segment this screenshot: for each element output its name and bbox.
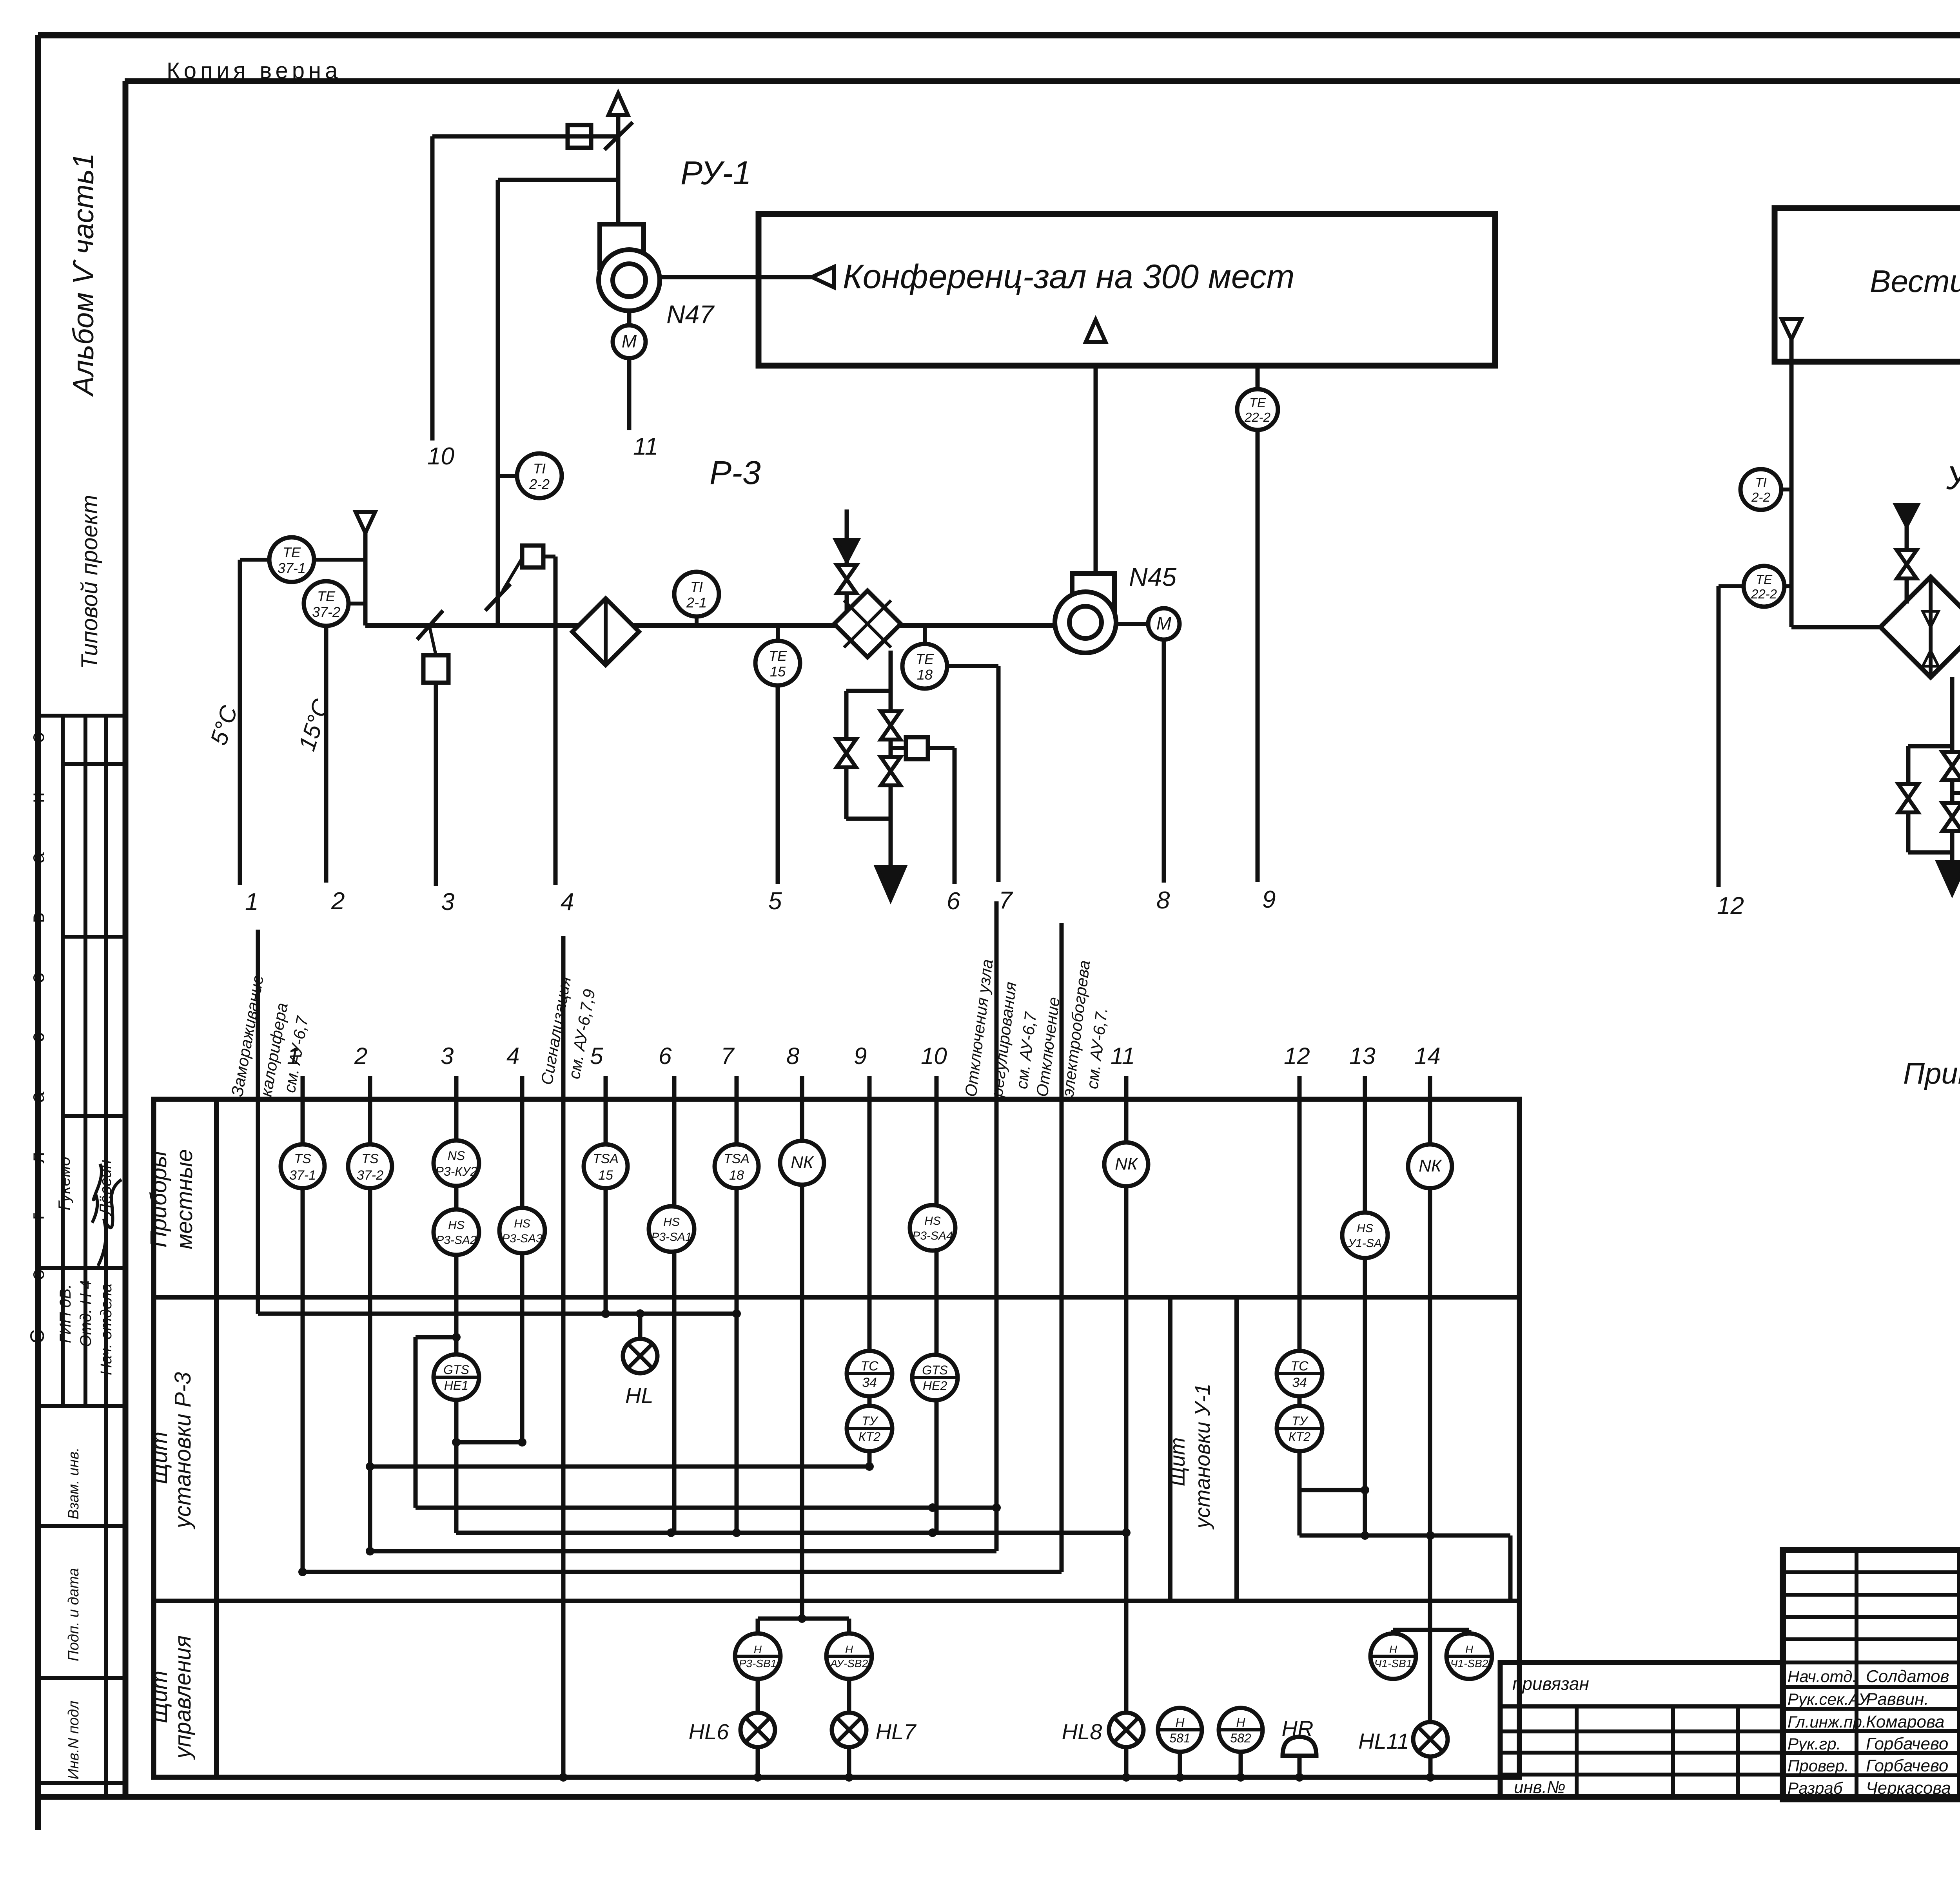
duct U-1 xyxy=(1791,625,1880,629)
svg-text:2-2: 2-2 xyxy=(529,476,550,492)
svg-text:НL8: НL8 xyxy=(1062,1719,1102,1744)
svg-text:ТЕ: ТЕ xyxy=(1756,572,1773,587)
wire 12 xyxy=(1719,584,1744,588)
svg-text:11: 11 xyxy=(633,433,658,460)
wire xyxy=(627,311,632,325)
wire 9 xyxy=(1256,430,1260,882)
svg-text:Гукемо: Гукемо xyxy=(55,1157,73,1211)
svg-text:НL6: НL6 xyxy=(689,1719,730,1744)
wire duct riser to P-3 xyxy=(496,180,500,625)
svg-text:Вестибюль: Вестибюль xyxy=(1870,264,1960,299)
matrix column 12 xyxy=(1298,1076,1302,1535)
svg-text:5: 5 xyxy=(768,888,782,915)
wire bracket H buttons U-1 xyxy=(1393,1628,1469,1632)
annotation: Отключение электрообогрева см.АУ-6,7 xyxy=(1060,923,1064,1572)
svg-text:10: 10 xyxy=(427,443,454,470)
svg-text:Разраб: Разраб xyxy=(1788,1779,1843,1797)
svg-text:НS: НS xyxy=(663,1216,680,1229)
svg-text:ТS: ТS xyxy=(361,1151,379,1166)
lamp HL drop xyxy=(638,1314,642,1339)
svg-text:С о г л а с о в а н о: С о г л а с о в а н о xyxy=(26,710,48,1344)
wire 1 xyxy=(238,560,242,885)
svg-text:Нач.отд.: Нач.отд. xyxy=(1788,1667,1857,1686)
svg-text:Черкасова: Черкасова xyxy=(1866,1778,1951,1798)
instrument NS P3-KY2 xyxy=(434,1140,479,1186)
svg-text:18: 18 xyxy=(729,1168,744,1183)
svg-text:N47: N47 xyxy=(666,300,715,329)
sheet outer border top xyxy=(38,32,1960,38)
svg-text:10: 10 xyxy=(921,1043,947,1069)
supply arrow into hall xyxy=(1086,320,1105,342)
inner frame left xyxy=(123,81,129,1797)
button H Ч1-SB1 xyxy=(1370,1633,1416,1679)
svg-text:2-1: 2-1 xyxy=(686,595,707,611)
svg-text:NК: NК xyxy=(1419,1157,1442,1176)
wire col3-col4 tie xyxy=(456,1440,522,1445)
fan N45 scroll xyxy=(1072,573,1114,623)
svg-text:КТ2: КТ2 xyxy=(1289,1430,1310,1444)
svg-text:установки Р-3: установки Р-3 xyxy=(170,1372,196,1530)
svg-text:582: 582 xyxy=(1230,1731,1251,1745)
instrument HS P3-SA2 xyxy=(434,1209,479,1255)
fan N45 impeller xyxy=(1055,592,1116,653)
damper slash on riser + actuator xyxy=(485,584,510,611)
svg-text:НS: НS xyxy=(514,1217,530,1230)
lamp HL8 xyxy=(1109,1713,1143,1747)
wire xyxy=(1178,1752,1182,1777)
inner frame top xyxy=(125,78,1960,84)
svg-text:Подп. и дата: Подп. и дата xyxy=(65,1568,82,1661)
matrix column 11 xyxy=(1124,1076,1129,1713)
svg-text:Щит: Щит xyxy=(147,1671,172,1723)
matrix column 14 xyxy=(1428,1076,1432,1722)
annotation: Сигнализация см.АУ-6,7,9 xyxy=(561,936,566,1777)
svg-text:ТЕ: ТЕ xyxy=(283,544,301,560)
svg-text:Горбачево: Горбачево xyxy=(1866,1756,1948,1775)
svg-text:2: 2 xyxy=(331,888,345,915)
svg-text:Щит: Щит xyxy=(1166,1438,1189,1486)
wire bypass xyxy=(1906,746,1911,852)
fan N47 impeller xyxy=(599,250,660,311)
relay GTS HE2 xyxy=(912,1355,958,1400)
heat supply arrow U-1 xyxy=(1896,505,1918,526)
svg-text:Н: Н xyxy=(1389,1643,1397,1655)
svg-text:НЕ2: НЕ2 xyxy=(923,1379,947,1393)
wire 7 xyxy=(947,664,998,668)
svg-text:Щит: Щит xyxy=(147,1432,172,1484)
title block main box xyxy=(1783,1550,1960,1799)
svg-text:Н: Н xyxy=(1175,1715,1185,1729)
svg-text:Ч1-SВ1: Ч1-SВ1 xyxy=(1374,1657,1412,1670)
svg-text:М: М xyxy=(1156,613,1172,633)
svg-text:ТІ: ТІ xyxy=(533,460,546,477)
svg-text:ТS: ТS xyxy=(294,1151,311,1166)
svg-text:Инв.N подл: Инв.N подл xyxy=(65,1701,82,1780)
svg-text:5: 5 xyxy=(590,1043,603,1069)
matrix column 9 xyxy=(867,1076,872,1467)
svg-text:Рук.сек.АУ: Рук.сек.АУ xyxy=(1788,1690,1871,1708)
wire bus P-3 panel top xyxy=(258,1312,737,1316)
button H P3-SB1 xyxy=(735,1633,780,1679)
wire link xyxy=(430,627,436,655)
RU-1 damper actuator box xyxy=(568,125,591,148)
title block extension box xyxy=(1500,1662,1783,1797)
wire xyxy=(1784,584,1791,588)
matrix row divider: instruments/panel P-3 xyxy=(154,1295,1519,1300)
wire xyxy=(348,602,365,605)
svg-text:Типовой проект: Типовой проект xyxy=(77,495,102,669)
svg-text:ТSА: ТSА xyxy=(593,1151,619,1166)
instrument HS U1-SA xyxy=(1342,1213,1388,1258)
svg-text:NК: NК xyxy=(1115,1155,1138,1174)
svg-text:НS: НS xyxy=(924,1215,941,1227)
svg-text:НL7: НL7 xyxy=(876,1719,917,1744)
matrix row divider: panel/control board xyxy=(154,1599,1519,1603)
instrument TSA 15 xyxy=(584,1144,628,1188)
svg-text:GТS: GТS xyxy=(443,1363,469,1377)
matrix column 13 xyxy=(1363,1076,1367,1535)
svg-text:6: 6 xyxy=(947,888,960,915)
svg-text:Приборы: Приборы xyxy=(146,1151,171,1247)
drain arrow xyxy=(877,867,905,899)
svg-text:N45: N45 xyxy=(1129,562,1176,591)
svg-text:ТSА: ТSА xyxy=(724,1151,750,1166)
wire xyxy=(314,558,365,562)
button H AY-SB2 xyxy=(826,1633,872,1679)
matrix column 1 xyxy=(301,1076,305,1572)
lamp HL6 xyxy=(740,1713,775,1747)
button H 581 xyxy=(1158,1708,1202,1752)
matrix column 5 xyxy=(604,1076,608,1314)
matrix column 2 xyxy=(368,1076,372,1551)
svg-text:Горбачево: Горбачево xyxy=(1866,1734,1948,1753)
svg-text:Р3-SА2: Р3-SА2 xyxy=(436,1234,477,1247)
svg-text:ТЕ: ТЕ xyxy=(317,588,336,604)
bell HR xyxy=(1283,1737,1316,1756)
svg-text:Провер.: Провер. xyxy=(1788,1757,1849,1775)
svg-text:установки У-1: установки У-1 xyxy=(1191,1383,1214,1530)
controller TC 34 xyxy=(847,1351,892,1396)
wire xyxy=(695,616,699,625)
heater (air heater) xyxy=(834,591,901,657)
annotation: Отключения узла регулирования см.АУ-6,7 xyxy=(995,901,999,1551)
svg-text:Конференц-зал на 300 мест: Конференц-зал на 300 мест xyxy=(843,258,1294,295)
svg-text:Альбом Ѵ часть1: Альбом Ѵ часть1 xyxy=(67,153,100,397)
svg-text:2-2: 2-2 xyxy=(1751,490,1770,504)
lamp HL xyxy=(623,1339,657,1373)
wire bus to col11 xyxy=(456,1531,1126,1535)
svg-text:4: 4 xyxy=(561,888,574,915)
svg-text:ТУ: ТУ xyxy=(1292,1414,1309,1428)
svg-text:Ч1-SВ2: Ч1-SВ2 xyxy=(1450,1657,1488,1670)
instrument TSA 18 xyxy=(715,1144,759,1188)
svg-text:Примечания см. лист АУ-7.: Примечания см. лист АУ-7. xyxy=(1903,1057,1960,1090)
wire fan N47 suction xyxy=(660,275,812,279)
left stamp table xyxy=(38,714,125,718)
svg-text:Отд. Н 4: Отд. Н 4 xyxy=(77,1280,94,1347)
instrument TI 2-2 (U-1 intake) xyxy=(1740,469,1781,510)
vestibule intake funnel xyxy=(1782,319,1801,339)
wire RU-1 branch xyxy=(498,178,618,182)
svg-text:ТЕ: ТЕ xyxy=(769,648,787,664)
instrument NK col11 xyxy=(1104,1142,1148,1186)
wire bus to TY KT2 xyxy=(370,1465,869,1469)
controller TC 34 (U-1) xyxy=(1277,1351,1322,1396)
svg-text:14: 14 xyxy=(1414,1043,1441,1069)
conference hall box xyxy=(759,214,1495,366)
matrix column 6 xyxy=(672,1076,677,1533)
svg-text:37-1: 37-1 xyxy=(289,1168,316,1183)
damper actuator box xyxy=(522,546,543,567)
svg-text:НЕ1: НЕ1 xyxy=(444,1378,468,1392)
relay TY KT2 (U-1) xyxy=(1277,1406,1322,1451)
wire HL11 to bus xyxy=(1428,1757,1433,1777)
svg-text:12: 12 xyxy=(1717,892,1744,919)
valve xyxy=(1897,550,1916,578)
instrument NK col8 xyxy=(780,1141,824,1185)
svg-text:НR: НR xyxy=(1282,1716,1314,1741)
air intake funnel xyxy=(356,512,375,533)
main supply duct P-3 xyxy=(365,623,1055,628)
svg-text:3: 3 xyxy=(441,888,454,915)
svg-text:Н: Н xyxy=(845,1643,853,1655)
wire xyxy=(889,651,893,867)
wire xyxy=(756,1679,760,1713)
svg-text:местные: местные xyxy=(172,1149,197,1249)
duct damper slash xyxy=(417,611,443,640)
svg-text:9: 9 xyxy=(1262,886,1276,913)
matrix column 4 xyxy=(520,1076,524,1442)
sub panel box: Щит установки У-1 xyxy=(1168,1297,1172,1601)
svg-text:Р3-КУ2: Р3-КУ2 xyxy=(436,1164,477,1178)
wire xyxy=(543,555,555,558)
instrument HS P3-SA4 xyxy=(910,1205,955,1251)
svg-text:ТС: ТС xyxy=(860,1359,878,1374)
svg-text:АУ-SВ2: АУ-SВ2 xyxy=(829,1657,868,1670)
svg-text:РУ-1: РУ-1 xyxy=(681,154,751,191)
svg-text:Р3-SВ1: Р3-SВ1 xyxy=(739,1657,777,1670)
svg-text:ТЕ: ТЕ xyxy=(916,651,934,667)
svg-text:37-1: 37-1 xyxy=(278,560,306,576)
valve bypass xyxy=(1898,784,1918,812)
svg-text:7: 7 xyxy=(999,887,1013,914)
wire link xyxy=(891,746,906,750)
wire xyxy=(1239,1752,1243,1777)
svg-text:У1-SА: У1-SА xyxy=(1348,1237,1382,1250)
svg-text:581: 581 xyxy=(1169,1731,1190,1745)
svg-text:Н: Н xyxy=(1465,1643,1474,1655)
svg-text:Р3-SА3: Р3-SА3 xyxy=(502,1232,543,1245)
wire bus to annotation 2 xyxy=(303,1570,1062,1574)
air filter xyxy=(572,598,639,665)
svg-text:22-2: 22-2 xyxy=(1751,587,1777,601)
svg-text:Р-3: Р-3 xyxy=(710,454,761,491)
svg-text:Н: Н xyxy=(1236,1715,1245,1729)
svg-text:8: 8 xyxy=(1156,887,1170,914)
svg-text:Солдатов: Солдатов xyxy=(1866,1667,1949,1686)
wire bypass bottom xyxy=(846,817,891,821)
wire bracket H buttons P-3 xyxy=(758,1617,849,1621)
wire xyxy=(923,625,927,644)
matrix column 8 xyxy=(800,1076,804,1619)
svg-text:NК: NК xyxy=(791,1153,814,1172)
svg-text:ТС: ТС xyxy=(1290,1359,1308,1374)
wire link xyxy=(1952,791,1960,795)
svg-text:NS: NS xyxy=(448,1149,465,1163)
wire xyxy=(498,474,518,478)
wire 10 xyxy=(430,136,435,441)
wire 2 xyxy=(324,626,328,883)
wire supply riser to hall xyxy=(1094,366,1098,573)
control valve xyxy=(881,757,900,785)
svg-text:ТЕ: ТЕ xyxy=(1249,395,1266,410)
matrix column 10 xyxy=(935,1076,939,1533)
svg-text:Раввин.: Раввин. xyxy=(1866,1690,1929,1709)
suction funnel xyxy=(812,267,834,287)
svg-text:НL: НL xyxy=(625,1383,653,1408)
wire xyxy=(1950,677,1955,852)
wire bypass xyxy=(844,691,849,819)
svg-text:11: 11 xyxy=(1111,1043,1135,1069)
valve actuator box xyxy=(906,737,928,759)
relay TY KT2 xyxy=(847,1406,892,1451)
instrument TS 37-1 xyxy=(281,1144,325,1188)
svg-text:Гл.инж.пр.: Гл.инж.пр. xyxy=(1788,1713,1867,1731)
instrument HS P3-SA1 xyxy=(649,1206,694,1252)
instrument TE 22-2 (U-1) xyxy=(1744,566,1784,607)
wire xyxy=(240,558,270,562)
svg-text:М: М xyxy=(622,331,637,351)
wire 8 xyxy=(1162,640,1166,883)
svg-text:инв.№: инв.№ xyxy=(1514,1778,1566,1797)
relay GTS HE1 xyxy=(434,1354,479,1400)
svg-text:37-2: 37-2 xyxy=(357,1168,383,1183)
svg-text:НS: НS xyxy=(1357,1222,1373,1235)
svg-text:управления: управления xyxy=(170,1635,196,1760)
svg-text:GТS: GТS xyxy=(922,1363,948,1377)
wire bypass bottom xyxy=(1908,850,1952,855)
vestibule box xyxy=(1775,208,1960,362)
instrument TS 37-2 xyxy=(348,1144,392,1188)
wire 5 xyxy=(776,685,780,884)
svg-text:Р3-SА4: Р3-SА4 xyxy=(912,1229,953,1242)
svg-text:Н: Н xyxy=(754,1643,762,1655)
wire link xyxy=(503,558,522,591)
wire xyxy=(1116,622,1148,626)
duct damper actuator box xyxy=(423,655,448,683)
drain arrow U-1 xyxy=(1938,862,1960,894)
wire intake drop xyxy=(363,533,368,625)
wire xyxy=(847,1679,851,1713)
svg-text:34: 34 xyxy=(862,1375,877,1390)
wire 3 xyxy=(434,683,438,886)
svg-text:Рук.гр.: Рук.гр. xyxy=(1788,1735,1841,1753)
svg-text:ТУ: ТУ xyxy=(862,1414,879,1428)
svg-text:7: 7 xyxy=(721,1043,735,1069)
annotation: Замораживание калорифера см.АУ-6,7 xyxy=(256,930,260,1314)
button H Ч1-SB2 xyxy=(1446,1633,1492,1679)
valve xyxy=(1942,752,1960,780)
wire xyxy=(1256,366,1260,388)
wire xyxy=(1781,488,1791,491)
svg-text:Взам. инв.: Взам. инв. xyxy=(65,1447,82,1519)
svg-text:У-1: У-1 xyxy=(1946,459,1960,496)
control valve xyxy=(1942,803,1960,831)
sheet outer border left xyxy=(35,35,41,1830)
svg-text:34: 34 xyxy=(1292,1375,1307,1390)
control matrix outer box xyxy=(154,1099,1519,1777)
inner frame bottom xyxy=(38,1794,1960,1800)
instrument HS P3-SA3 xyxy=(499,1208,545,1253)
svg-text:привязан: привязан xyxy=(1512,1673,1589,1694)
svg-text:15: 15 xyxy=(770,663,786,680)
svg-text:Нач. отдела: Нач. отдела xyxy=(98,1283,115,1375)
svg-text:ТІ: ТІ xyxy=(690,579,703,595)
valve xyxy=(881,711,900,740)
wire bus to annotation 1 xyxy=(370,1549,996,1554)
wire xyxy=(847,1747,851,1777)
wire HL8 to bus xyxy=(1124,1747,1129,1777)
title block revision grid xyxy=(1783,1570,1960,1574)
svg-text:2: 2 xyxy=(354,1043,367,1069)
svg-text:12: 12 xyxy=(1284,1043,1310,1069)
instrument NK col14 xyxy=(1408,1144,1452,1188)
wire 4 xyxy=(554,557,558,885)
svg-text:Р3-SА1: Р3-SА1 xyxy=(651,1231,691,1244)
matrix row-label divider xyxy=(214,1099,219,1777)
svg-text:НL11: НL11 xyxy=(1358,1729,1409,1753)
wire bracket around GTS HE1 xyxy=(416,1335,456,1340)
svg-text:8: 8 xyxy=(786,1043,800,1069)
svg-text:13: 13 xyxy=(1349,1043,1376,1069)
button H 582 xyxy=(1219,1708,1263,1752)
svg-text:Комарова: Комарова xyxy=(1866,1712,1944,1731)
damper slash on RU-1 outlet xyxy=(604,122,633,150)
RU-1 exhaust outlet arrow xyxy=(616,114,621,136)
svg-text:22-2: 22-2 xyxy=(1244,410,1270,424)
svg-text:Копия верна: Копия верна xyxy=(167,58,341,83)
svg-text:ГИП 0В.: ГИП 0В. xyxy=(57,1284,74,1343)
U-1 heat recovery exchanger xyxy=(1880,577,1960,677)
wire xyxy=(432,134,618,139)
svg-text:18: 18 xyxy=(917,667,933,683)
wire bus HE1 loop xyxy=(416,1506,996,1510)
svg-text:37-2: 37-2 xyxy=(312,604,340,620)
wire xyxy=(845,561,849,611)
matrix column 3 xyxy=(454,1076,459,1533)
svg-text:6: 6 xyxy=(659,1043,672,1069)
wire bypass top xyxy=(846,689,891,693)
heat supply arrow xyxy=(836,540,858,561)
svg-text:3: 3 xyxy=(441,1043,454,1069)
valve xyxy=(837,565,857,593)
wire bypass top xyxy=(1908,744,1952,749)
svg-text:КТ2: КТ2 xyxy=(858,1430,880,1444)
valve bypass xyxy=(837,739,856,767)
wire U-1 panel ties xyxy=(1299,1488,1365,1492)
svg-text:15: 15 xyxy=(598,1168,613,1183)
wire xyxy=(1905,526,1909,604)
svg-text:1: 1 xyxy=(245,888,258,915)
svg-text:НS: НS xyxy=(448,1219,465,1232)
svg-text:ТІ: ТІ xyxy=(1755,475,1766,490)
fan N47 scroll xyxy=(600,224,644,270)
svg-text:9: 9 xyxy=(854,1043,867,1069)
wire 6 xyxy=(928,746,955,750)
lamp HL7 xyxy=(832,1713,866,1747)
signature squiggle xyxy=(92,1164,102,1223)
wire fan N47 inlet xyxy=(616,136,621,224)
